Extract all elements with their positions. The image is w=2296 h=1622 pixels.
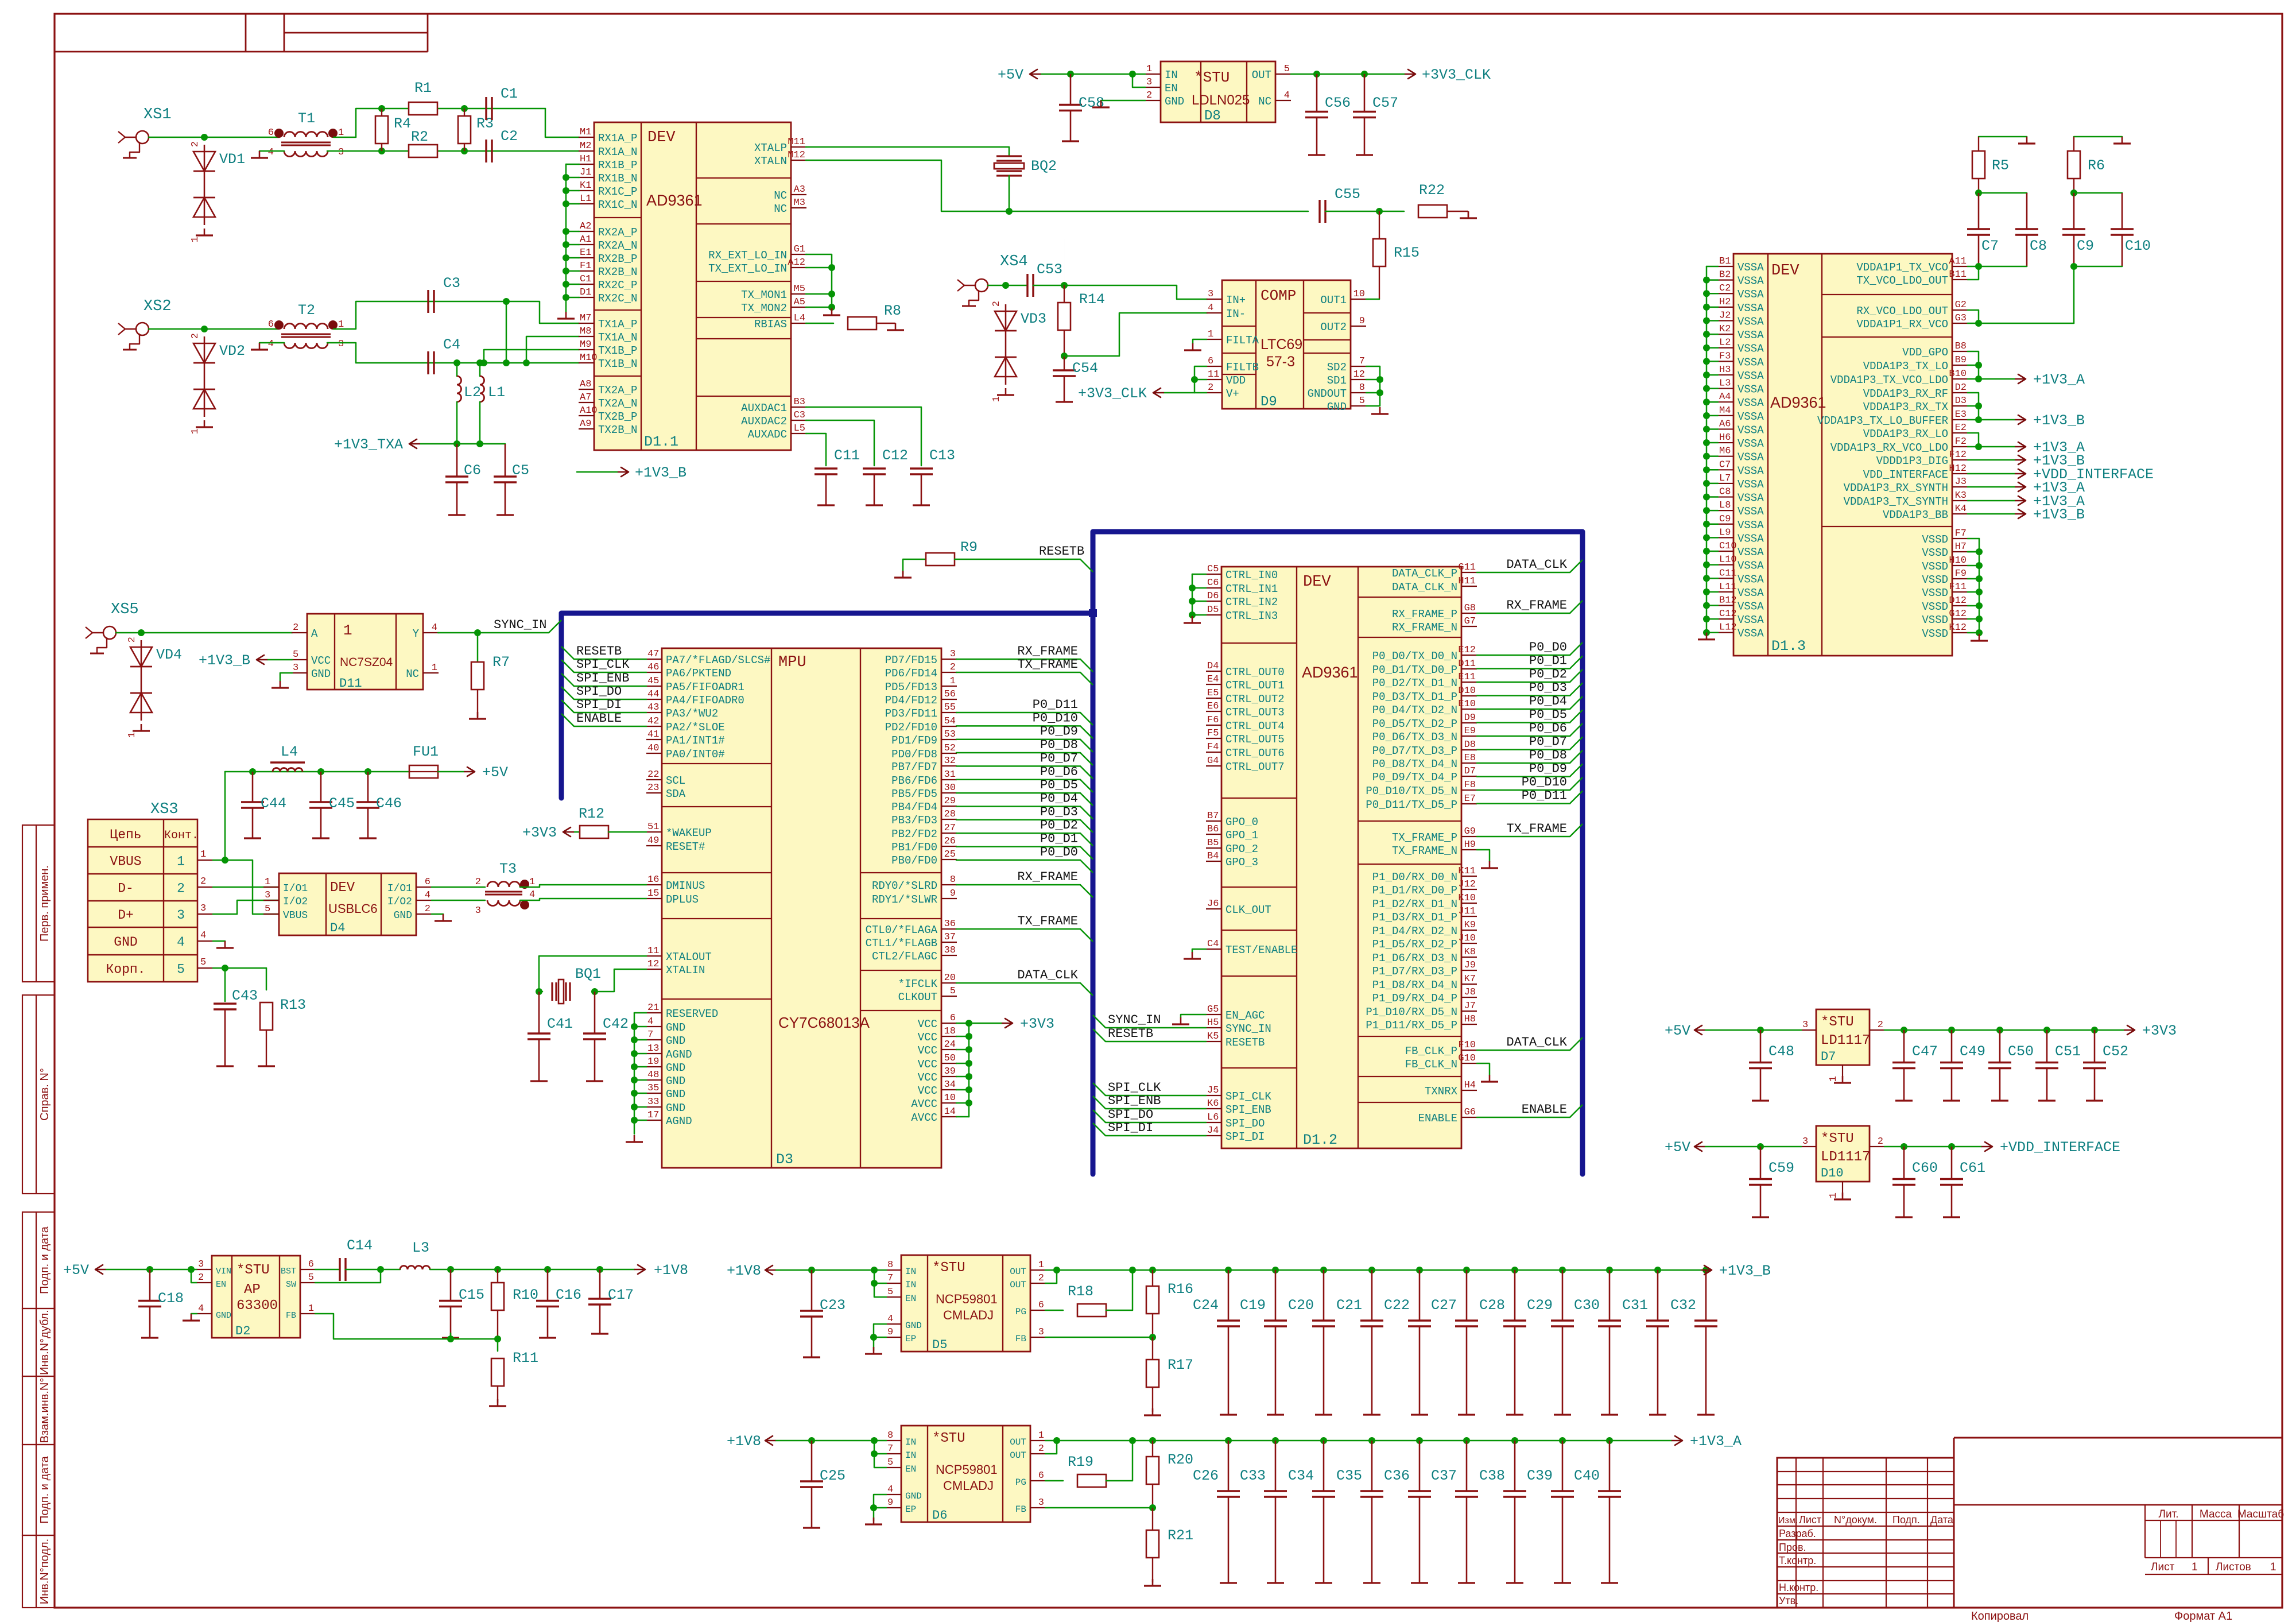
svg-text:BQ2: BQ2 [1031, 158, 1057, 175]
svg-text:P0_D7/TX_D3_P: P0_D7/TX_D3_P [1372, 745, 1457, 757]
svg-text:OUT: OUT [1252, 69, 1271, 82]
svg-text:C26: C26 [1193, 1468, 1219, 1484]
svg-text:B4: B4 [1207, 851, 1219, 862]
svg-text:F3: F3 [1719, 351, 1731, 362]
svg-text:9: 9 [950, 888, 956, 899]
svg-text:EP: EP [905, 1504, 916, 1515]
svg-text:Листов: Листов [2216, 1561, 2251, 1573]
svg-text:RX2B_P: RX2B_P [598, 253, 637, 265]
svg-text:F11: F11 [1949, 582, 1967, 593]
svg-text:3: 3 [200, 903, 206, 914]
svg-text:R5: R5 [1992, 157, 2009, 174]
svg-text:K3: K3 [1955, 490, 1967, 501]
svg-text:VDDA1P3_RX_VCO_LDO: VDDA1P3_RX_VCO_LDO [1830, 442, 1948, 454]
svg-text:L3: L3 [1719, 378, 1731, 389]
svg-text:R4: R4 [394, 115, 411, 132]
svg-text:44: 44 [647, 689, 659, 700]
svg-text:+5V: +5V [1665, 1023, 1690, 1039]
svg-text:EP: EP [905, 1334, 916, 1344]
svg-text:40: 40 [647, 743, 659, 754]
svg-text:Лит.: Лит. [2159, 1508, 2179, 1520]
svg-text:VSSD: VSSD [1922, 601, 1948, 613]
svg-text:VSSA: VSSA [1737, 370, 1764, 382]
svg-text:RESERVED: RESERVED [666, 1008, 718, 1020]
svg-text:A12: A12 [788, 257, 805, 268]
svg-text:VSSA: VSSA [1737, 315, 1764, 328]
svg-text:XS2: XS2 [143, 298, 172, 315]
svg-text:CTRL_OUT0: CTRL_OUT0 [1225, 666, 1285, 679]
svg-text:AGND: AGND [666, 1115, 692, 1128]
svg-text:6: 6 [308, 1259, 314, 1270]
svg-text:SYNC_IN: SYNC_IN [494, 618, 546, 632]
svg-text:3: 3 [198, 1259, 204, 1270]
svg-text:M12: M12 [788, 150, 805, 161]
svg-text:R1: R1 [414, 80, 432, 96]
svg-text:B12: B12 [1719, 595, 1737, 606]
svg-text:P0_D0: P0_D0 [1529, 640, 1567, 655]
svg-text:J7: J7 [1464, 1001, 1476, 1012]
svg-text:AVCC: AVCC [911, 1112, 937, 1124]
svg-text:C3: C3 [443, 275, 460, 292]
svg-text:DATA_CLK: DATA_CLK [1506, 558, 1567, 572]
svg-text:J2: J2 [1719, 310, 1731, 321]
svg-text:CTRL_IN3: CTRL_IN3 [1225, 610, 1278, 622]
svg-text:1: 1 [1038, 1260, 1044, 1271]
svg-text:E10: E10 [1458, 699, 1476, 710]
svg-text:C19: C19 [1240, 1297, 1266, 1314]
svg-text:63300: 63300 [236, 1298, 278, 1314]
svg-text:26: 26 [944, 836, 956, 847]
svg-text:AGND: AGND [666, 1048, 692, 1061]
svg-text:Утв.: Утв. [1779, 1595, 1798, 1606]
svg-text:ENABLE: ENABLE [1522, 1102, 1567, 1117]
svg-text:P0_D9: P0_D9 [1040, 725, 1078, 739]
svg-text:C20: C20 [1288, 1297, 1314, 1314]
svg-text:GND: GND [666, 1035, 685, 1047]
svg-text:P0_D2/TX_D1_N: P0_D2/TX_D1_N [1372, 677, 1457, 690]
svg-text:XS4: XS4 [1000, 253, 1028, 270]
svg-text:5: 5 [265, 904, 270, 915]
svg-text:47: 47 [647, 649, 659, 660]
svg-text:SYNC_IN: SYNC_IN [1225, 1023, 1271, 1035]
svg-text:C28: C28 [1479, 1297, 1505, 1314]
svg-text:Справ. N°: Справ. N° [38, 1068, 51, 1121]
svg-text:VSSA: VSSA [1737, 628, 1764, 640]
svg-text:R12: R12 [579, 806, 604, 822]
svg-text:DEV: DEV [647, 129, 676, 146]
svg-text:C10: C10 [2125, 238, 2151, 254]
svg-text:D+: D+ [118, 908, 134, 923]
svg-text:DEV: DEV [1303, 574, 1331, 591]
svg-text:38: 38 [944, 945, 956, 956]
svg-text:VSSA: VSSA [1737, 464, 1764, 477]
svg-text:G7: G7 [1464, 616, 1476, 627]
svg-text:CTRL_OUT1: CTRL_OUT1 [1225, 679, 1285, 692]
svg-text:VSSD: VSSD [1922, 628, 1948, 640]
svg-text:VSSA: VSSA [1737, 438, 1764, 450]
svg-text:K9: K9 [1464, 920, 1476, 931]
svg-text:C5: C5 [512, 462, 529, 479]
svg-text:C47: C47 [1912, 1043, 1938, 1060]
svg-text:OUT1: OUT1 [1320, 294, 1347, 307]
svg-text:PA4/FIFOADR0: PA4/FIFOADR0 [666, 694, 744, 707]
svg-text:+1V3_B: +1V3_B [635, 464, 687, 481]
svg-text:TX1A_N: TX1A_N [598, 331, 637, 344]
svg-text:5: 5 [308, 1272, 314, 1283]
svg-text:G10: G10 [1458, 1053, 1476, 1064]
svg-text:RDY0/*SLRD: RDY0/*SLRD [872, 880, 937, 892]
svg-text:VDDA1P3_TX_VCO_LDO: VDDA1P3_TX_VCO_LDO [1830, 374, 1948, 386]
svg-text:C23: C23 [820, 1297, 846, 1314]
svg-text:9: 9 [887, 1327, 893, 1338]
svg-text:PB2/FD2: PB2/FD2 [891, 828, 937, 841]
svg-text:RX1A_P: RX1A_P [598, 132, 637, 145]
svg-text:P1_D0/RX_D0_N: P1_D0/RX_D0_N [1372, 871, 1457, 884]
svg-text:Лист: Лист [1799, 1514, 1821, 1526]
svg-text:P0_D3/TX_D1_P: P0_D3/TX_D1_P [1372, 691, 1457, 703]
svg-text:+3V3: +3V3 [1020, 1016, 1054, 1032]
svg-text:CTRL_OUT3: CTRL_OUT3 [1225, 706, 1285, 719]
svg-text:Подп.: Подп. [1892, 1514, 1920, 1526]
svg-text:GND: GND [216, 1311, 231, 1321]
svg-text:RX2C_P: RX2C_P [598, 279, 637, 292]
svg-text:XS5: XS5 [111, 601, 139, 618]
svg-text:Инв.N°дубл.: Инв.N°дубл. [38, 1310, 51, 1375]
svg-text:4: 4 [887, 1314, 893, 1325]
svg-text:P0_D0: P0_D0 [1040, 845, 1078, 860]
svg-text:1: 1 [1828, 1076, 1839, 1082]
svg-text:VSSA: VSSA [1737, 275, 1764, 288]
svg-text:6: 6 [425, 877, 430, 888]
svg-text:D5: D5 [1207, 605, 1219, 615]
svg-text:D1.3: D1.3 [1771, 638, 1806, 655]
svg-text:F4: F4 [1207, 742, 1219, 753]
svg-text:VSSD: VSSD [1922, 560, 1948, 573]
svg-text:RX_FRAME_P: RX_FRAME_P [1392, 608, 1457, 621]
svg-text:P1_D4/RX_D2_N: P1_D4/RX_D2_N [1372, 925, 1457, 938]
svg-text:2: 2 [200, 876, 206, 887]
svg-text:D8: D8 [1464, 740, 1476, 750]
svg-text:C31: C31 [1622, 1297, 1648, 1314]
svg-text:Масштаб: Масштаб [2237, 1508, 2284, 1520]
svg-text:A6: A6 [1719, 419, 1731, 429]
svg-text:1: 1 [2270, 1561, 2276, 1573]
svg-text:G1: G1 [794, 244, 805, 255]
svg-text:C6: C6 [464, 462, 481, 479]
svg-text:VD1: VD1 [219, 151, 245, 168]
svg-text:SPI_ENB: SPI_ENB [1225, 1104, 1271, 1116]
svg-text:VSSA: VSSA [1737, 587, 1764, 599]
svg-text:13: 13 [647, 1043, 659, 1054]
svg-text:C44: C44 [261, 795, 286, 812]
svg-text:T3: T3 [499, 861, 517, 877]
svg-text:USBLC6: USBLC6 [328, 901, 378, 916]
svg-text:D1.1: D1.1 [644, 433, 678, 450]
svg-text:TX_VCO_LDO_OUT: TX_VCO_LDO_OUT [1856, 274, 1948, 287]
svg-text:H7: H7 [1955, 541, 1967, 552]
svg-text:H9: H9 [1464, 839, 1476, 850]
svg-text:RX1C_N: RX1C_N [598, 199, 637, 211]
svg-text:VSSA: VSSA [1737, 302, 1764, 315]
svg-text:TX2B_P: TX2B_P [598, 411, 637, 423]
svg-text:4: 4 [1284, 90, 1290, 101]
svg-text:P1_D3/RX_D1_P: P1_D3/RX_D1_P [1372, 911, 1457, 924]
svg-text:ENABLE: ENABLE [1418, 1112, 1457, 1125]
svg-text:RX_VCO_LDO_OUT: RX_VCO_LDO_OUT [1856, 305, 1948, 318]
svg-text:4: 4 [268, 147, 274, 158]
svg-text:VDD: VDD [1226, 374, 1246, 387]
svg-text:22: 22 [647, 769, 659, 780]
svg-text:+1V8: +1V8 [654, 1262, 688, 1279]
svg-text:+5V: +5V [63, 1262, 89, 1279]
svg-text:VSSD: VSSD [1922, 533, 1948, 546]
svg-text:D1: D1 [580, 287, 591, 298]
svg-text:C30: C30 [1574, 1297, 1600, 1314]
svg-text:R19: R19 [1068, 1454, 1093, 1470]
svg-text:D11: D11 [1458, 659, 1476, 669]
svg-text:1: 1 [1146, 64, 1152, 75]
svg-text:RX2A_P: RX2A_P [598, 226, 637, 239]
svg-text:SPI_DI: SPI_DI [576, 698, 622, 712]
svg-text:C43: C43 [232, 988, 258, 1004]
svg-text:A3: A3 [794, 184, 805, 195]
svg-text:EN_AGC: EN_AGC [1225, 1009, 1265, 1022]
svg-text:5: 5 [950, 986, 956, 997]
svg-text:3: 3 [1208, 289, 1213, 300]
svg-text:CTRL_OUT5: CTRL_OUT5 [1225, 733, 1285, 746]
svg-text:P0_D4/TX_D2_N: P0_D4/TX_D2_N [1372, 704, 1457, 717]
svg-text:R15: R15 [1394, 245, 1420, 261]
svg-text:56: 56 [944, 689, 956, 700]
svg-text:3: 3 [475, 905, 481, 916]
svg-text:J8: J8 [1464, 987, 1476, 998]
svg-text:P0_D11: P0_D11 [1033, 698, 1078, 712]
svg-text:C15: C15 [459, 1287, 484, 1303]
svg-text:+VDD_INTERFACE: +VDD_INTERFACE [2000, 1139, 2120, 1156]
svg-text:C49: C49 [1960, 1043, 1985, 1060]
svg-text:A11: A11 [1949, 256, 1967, 267]
svg-text:D12: D12 [1949, 595, 1967, 606]
svg-text:PA5/FIFOADR1: PA5/FIFOADR1 [666, 681, 744, 694]
svg-text:RX_FRAME: RX_FRAME [1506, 598, 1567, 613]
svg-text:R6: R6 [2088, 157, 2105, 174]
svg-text:OUT2: OUT2 [1320, 321, 1347, 334]
svg-text:23: 23 [647, 783, 659, 793]
svg-text:C9: C9 [1719, 514, 1731, 525]
svg-text:TX_FRAME_N: TX_FRAME_N [1392, 845, 1457, 857]
svg-text:NC: NC [406, 668, 419, 680]
svg-text:D-: D- [118, 881, 134, 896]
svg-text:PD2/FD10: PD2/FD10 [885, 721, 937, 734]
svg-text:P1_D11/RX_D5_P: P1_D11/RX_D5_P [1366, 1019, 1457, 1032]
svg-text:VCC: VCC [918, 1071, 937, 1084]
svg-text:53: 53 [944, 729, 956, 740]
svg-text:C9: C9 [2077, 238, 2094, 254]
svg-text:R14: R14 [1079, 291, 1105, 308]
svg-text:VDDD1P3_DIG: VDDD1P3_DIG [1876, 455, 1948, 467]
svg-text:SPI_DO: SPI_DO [576, 684, 622, 699]
svg-text:AD9361: AD9361 [1302, 664, 1358, 681]
svg-text:46: 46 [647, 662, 659, 673]
svg-text:8: 8 [887, 1260, 893, 1271]
svg-text:D2: D2 [1955, 382, 1967, 393]
svg-text:SPI_DO: SPI_DO [1225, 1117, 1265, 1130]
svg-text:M5: M5 [794, 284, 805, 295]
svg-text:H4: H4 [1464, 1080, 1476, 1091]
svg-text:C24: C24 [1193, 1297, 1219, 1314]
svg-text:1: 1 [343, 622, 352, 639]
svg-text:D7: D7 [1464, 766, 1476, 777]
svg-text:K2: K2 [1719, 324, 1731, 335]
svg-text:C17: C17 [608, 1287, 634, 1303]
svg-text:1: 1 [1828, 1193, 1839, 1198]
svg-text:D10: D10 [1458, 686, 1476, 696]
svg-text:6: 6 [1038, 1300, 1044, 1311]
svg-text:31: 31 [944, 769, 956, 780]
svg-text:PD6/FD14: PD6/FD14 [885, 667, 937, 680]
svg-text:+1V8: +1V8 [727, 1433, 761, 1450]
svg-text:VCC: VCC [918, 1044, 937, 1057]
svg-text:6: 6 [1038, 1470, 1044, 1481]
svg-text:SW: SW [286, 1280, 296, 1290]
svg-text:AUXDAC1: AUXDAC1 [741, 402, 787, 415]
svg-text:*STU: *STU [1821, 1015, 1854, 1030]
svg-text:EN: EN [216, 1280, 226, 1290]
svg-text:E4: E4 [1207, 674, 1219, 685]
svg-text:CY7C68013A: CY7C68013A [778, 1014, 870, 1031]
svg-text:1: 1 [200, 849, 206, 860]
svg-text:7: 7 [887, 1443, 893, 1454]
svg-text:P1_D10/RX_D5_N: P1_D10/RX_D5_N [1366, 1006, 1457, 1019]
svg-text:7: 7 [887, 1273, 893, 1284]
svg-text:29: 29 [944, 796, 956, 807]
svg-text:VSSD: VSSD [1922, 574, 1948, 586]
svg-text:P0_D6/TX_D3_N: P0_D6/TX_D3_N [1372, 731, 1457, 744]
svg-text:C16: C16 [556, 1287, 581, 1303]
svg-text:CMLADJ: CMLADJ [943, 1478, 994, 1493]
svg-text:EN: EN [1165, 82, 1178, 95]
svg-text:C10: C10 [1719, 541, 1737, 552]
svg-text:BQ1: BQ1 [575, 966, 601, 982]
svg-text:TX_FRAME: TX_FRAME [1017, 914, 1078, 928]
svg-text:Масса: Масса [2200, 1508, 2232, 1520]
svg-text:P0_D10: P0_D10 [1033, 711, 1078, 725]
svg-text:+1V3_B: +1V3_B [199, 652, 250, 669]
svg-text:34: 34 [944, 1079, 956, 1090]
svg-text:P0_D8: P0_D8 [1529, 748, 1567, 762]
svg-text:L3: L3 [412, 1240, 429, 1256]
svg-text:V+: V+ [1226, 388, 1239, 400]
svg-text:IN: IN [905, 1280, 916, 1290]
svg-text:12: 12 [1353, 369, 1365, 380]
svg-text:1: 1 [190, 237, 201, 242]
svg-text:PG: PG [1015, 1307, 1026, 1317]
svg-text:D3: D3 [776, 1151, 793, 1168]
svg-text:RX_FRAME: RX_FRAME [1017, 870, 1078, 884]
svg-text:TX_FRAME: TX_FRAME [1017, 657, 1078, 672]
svg-text:RESETB: RESETB [1225, 1036, 1265, 1049]
svg-text:I/O1: I/O1 [283, 883, 308, 895]
svg-text:LDLN025: LDLN025 [1192, 92, 1250, 108]
svg-text:*WAKEUP: *WAKEUP [666, 827, 712, 839]
svg-text:1: 1 [190, 428, 201, 434]
svg-text:+5V: +5V [998, 67, 1023, 83]
svg-text:RX_FRAME_N: RX_FRAME_N [1392, 621, 1457, 634]
svg-text:AVCC: AVCC [911, 1098, 937, 1110]
svg-text:I/O2: I/O2 [387, 896, 412, 908]
svg-text:3: 3 [950, 649, 956, 660]
svg-text:P0_D6: P0_D6 [1529, 721, 1567, 735]
svg-text:XS1: XS1 [143, 106, 172, 123]
svg-text:J3: J3 [1955, 477, 1967, 487]
svg-text:C48: C48 [1768, 1043, 1794, 1060]
svg-text:H6: H6 [1719, 432, 1731, 443]
svg-text:C41: C41 [547, 1016, 573, 1032]
svg-text:RX2C_N: RX2C_N [598, 292, 637, 305]
svg-text:N°докум.: N°докум. [1834, 1514, 1877, 1526]
svg-text:GNDOUT: GNDOUT [1308, 388, 1347, 400]
svg-text:I/O1: I/O1 [387, 883, 412, 895]
svg-text:Формат A1: Формат A1 [2174, 1610, 2232, 1622]
svg-text:PB6/FD6: PB6/FD6 [891, 775, 937, 787]
svg-text:GND: GND [666, 1102, 685, 1114]
svg-text:+1V3_B: +1V3_B [2033, 412, 2085, 429]
svg-text:42: 42 [647, 716, 659, 727]
svg-text:VDDA1P3_RX_TX: VDDA1P3_RX_TX [1863, 401, 1949, 413]
svg-text:XTALP: XTALP [754, 142, 787, 154]
svg-text:R8: R8 [884, 303, 901, 319]
svg-text:2: 2 [1146, 90, 1152, 101]
svg-text:VSSA: VSSA [1737, 384, 1764, 396]
svg-text:C55: C55 [1335, 186, 1360, 203]
svg-text:B5: B5 [1207, 838, 1219, 849]
svg-text:E7: E7 [1464, 793, 1476, 804]
svg-text:VSSA: VSSA [1737, 492, 1764, 505]
svg-text:VSSA: VSSA [1737, 519, 1764, 532]
svg-text:9: 9 [887, 1497, 893, 1508]
svg-text:CTRL_OUT4: CTRL_OUT4 [1225, 720, 1285, 733]
svg-text:TX1B_P: TX1B_P [598, 344, 637, 357]
svg-text:J10: J10 [1458, 933, 1476, 944]
svg-text:28: 28 [944, 809, 956, 820]
svg-text:C4: C4 [1207, 939, 1219, 950]
svg-text:Н.контр.: Н.контр. [1779, 1582, 1818, 1593]
svg-text:RX2A_N: RX2A_N [598, 239, 637, 252]
svg-text:H10: H10 [1949, 555, 1967, 566]
svg-text:G2: G2 [1955, 300, 1967, 311]
svg-text:TX_MON1: TX_MON1 [741, 289, 787, 301]
svg-text:G4: G4 [1207, 756, 1219, 767]
svg-text:VSSA: VSSA [1737, 532, 1764, 545]
svg-text:L10: L10 [1719, 555, 1737, 566]
svg-text:NC: NC [1258, 95, 1271, 108]
svg-text:E2: E2 [1955, 423, 1967, 433]
svg-text:H12: H12 [1949, 463, 1967, 474]
svg-text:VIN: VIN [216, 1267, 231, 1276]
svg-text:J11: J11 [1458, 906, 1476, 917]
svg-text:XTALN: XTALN [754, 155, 787, 168]
svg-text:VDDA1P3_TX_LO: VDDA1P3_TX_LO [1863, 360, 1948, 373]
svg-text:Перв. примен.: Перв. примен. [38, 865, 51, 942]
svg-text:C1: C1 [501, 86, 518, 102]
svg-text:57-3: 57-3 [1266, 354, 1295, 370]
svg-text:F6: F6 [1207, 715, 1219, 726]
svg-text:P0_D1: P0_D1 [1529, 654, 1567, 668]
svg-text:DATA_CLK: DATA_CLK [1017, 968, 1078, 982]
svg-text:GND: GND [1165, 95, 1184, 108]
svg-text:C8: C8 [1719, 487, 1731, 498]
svg-text:P1_D6/RX_D3_N: P1_D6/RX_D3_N [1372, 952, 1457, 965]
